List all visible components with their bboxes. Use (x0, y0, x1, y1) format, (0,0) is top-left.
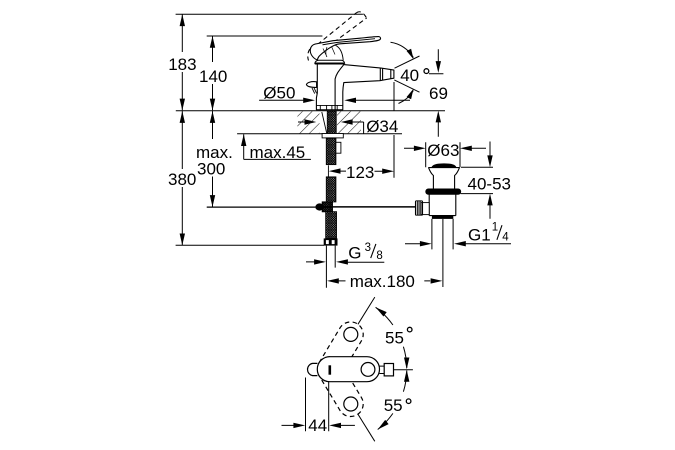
svg-text:G1: G1 (468, 226, 491, 245)
svg-text:140: 140 (199, 67, 227, 86)
svg-text:Ø50: Ø50 (263, 84, 295, 103)
svg-text:max.180: max.180 (350, 272, 415, 291)
svg-text:8: 8 (376, 250, 382, 262)
svg-text:Ø34: Ø34 (366, 117, 398, 136)
svg-text:380: 380 (168, 170, 196, 189)
svg-text:Ø63: Ø63 (427, 141, 459, 160)
svg-text:3: 3 (365, 242, 371, 254)
svg-text:55: 55 (384, 396, 403, 415)
svg-text:G: G (348, 243, 361, 262)
svg-text:123: 123 (346, 163, 374, 182)
svg-text:40: 40 (400, 66, 419, 85)
svg-text:4: 4 (502, 231, 509, 243)
svg-text:300: 300 (197, 160, 225, 179)
svg-text:max.45: max.45 (250, 143, 306, 162)
svg-text:69: 69 (429, 84, 448, 103)
svg-text:183: 183 (168, 55, 196, 74)
svg-text:40-53: 40-53 (468, 174, 511, 193)
svg-text:55: 55 (385, 329, 404, 348)
svg-text:1: 1 (492, 221, 498, 233)
svg-text:44: 44 (308, 416, 327, 435)
